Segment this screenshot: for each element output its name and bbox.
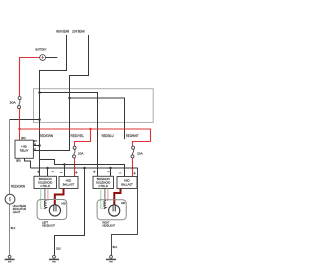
ground right headlight: [106, 255, 116, 262]
svg-text:CTRLR: CTRLR: [98, 184, 108, 188]
svg-text:RED/YEL: RED/YEL: [71, 134, 85, 138]
wire ground bus with right headlight ground: [31, 167, 138, 169]
bulb left HID: [49, 201, 66, 216]
svg-text:RED/BLU: RED/BLU: [102, 134, 115, 138]
wire low branch stub RED/WHT: [70, 98, 125, 139]
svg-text:BALLAST: BALLAST: [63, 183, 75, 187]
svg-text:LIGHT: LIGHT: [13, 210, 21, 214]
wire left fuse drop: [75, 129, 91, 146]
junction red bus left drop: [89, 128, 91, 130]
thick red ballast output right: [114, 189, 120, 206]
ballast right HID BALLAST: [117, 172, 137, 189]
headlight right housing: [97, 200, 126, 220]
solenoid coil left: [44, 201, 46, 209]
wire high-beam feed: [40, 35, 67, 176]
solenoid wires right black: [104, 189, 106, 202]
svg-text:HID: HID: [121, 201, 125, 205]
svg-text:RELAY: RELAY: [20, 149, 29, 153]
relay U1 HID RELAY: [15, 136, 33, 163]
wire battery negative stub: [46, 57, 58, 59]
junction solenoid minus left: [46, 167, 49, 170]
wire battery red feed: [20, 58, 40, 97]
wire fuse to relay pin 30: [19, 108, 21, 140]
svg-text:BLK: BLK: [11, 226, 16, 230]
solenoid wires left black: [44, 189, 46, 202]
headlight left housing: [37, 200, 67, 220]
junction high/relay86: [38, 144, 41, 147]
thick red ballast output left: [55, 189, 64, 206]
svg-text:HEADLIGHT: HEADLIGHT: [42, 224, 55, 228]
gray boundary box: [34, 89, 154, 123]
svg-text:LOW BEAM: LOW BEAM: [72, 29, 85, 33]
wire relay 85 to ground bus: [25, 158, 31, 168]
lamp high beam indicator: [5, 194, 27, 214]
junction solenoid minus right: [109, 167, 112, 170]
wire left fuse to ballast: [74, 158, 76, 177]
fuse 30A: [10, 97, 22, 109]
wire right headlight ground drop: [112, 168, 138, 256]
svg-text:HEADLIGHT: HEADLIGHT: [102, 224, 115, 228]
svg-text:30A: 30A: [10, 100, 16, 104]
wire right fuse to ballast: [132, 158, 134, 177]
ground left headlight: [49, 255, 59, 262]
bulb right HID: [109, 201, 126, 216]
wire ballast signal line: [40, 160, 125, 177]
wire left ballast signal drop: [64, 165, 66, 177]
ground indicator: [5, 255, 15, 262]
solenoid wires right green: [101, 189, 103, 209]
wire left headlight ground: [55, 168, 85, 256]
junction high/branch: [38, 91, 41, 94]
svg-text:BLK: BLK: [113, 245, 118, 249]
solenoid controller right: [93, 171, 114, 189]
fuse 20A right: [131, 146, 143, 158]
svg-text:(85): (85): [16, 159, 21, 163]
svg-text:RED/GRN: RED/GRN: [11, 184, 26, 188]
wire right solenoid minus drop: [110, 168, 112, 176]
wire indicator to ground: [9, 204, 11, 256]
wire high branch to right solenoid ctrlr: [40, 93, 98, 177]
svg-text:(30): (30): [21, 136, 26, 140]
svg-text:HIGH BEAM: HIGH BEAM: [56, 29, 69, 33]
svg-text:BLK: BLK: [56, 246, 61, 250]
solenoid coil right: [104, 201, 106, 209]
svg-text:CTRLR: CTRLR: [40, 184, 50, 188]
junction left ground: [83, 167, 86, 170]
junction high/indicator: [38, 118, 41, 121]
solenoid controller left: [34, 171, 57, 189]
wire indicator drop: [9, 120, 11, 195]
svg-text:BALLAST: BALLAST: [121, 183, 133, 187]
solenoid wires right red: [107, 189, 109, 202]
solenoid wires left green: [41, 189, 44, 209]
pin 87a stub: [33, 141, 35, 143]
junction ballast signal: [63, 163, 66, 166]
svg-text:20A: 20A: [137, 152, 143, 156]
svg-text:RED/GRN: RED/GRN: [39, 134, 54, 138]
wire indicator branch horizontal: [10, 119, 40, 121]
junction low/branch: [68, 97, 71, 100]
wire low-beam feed: [32, 35, 89, 151]
junction red bus at relay: [18, 128, 20, 130]
svg-text:20A: 20A: [78, 152, 84, 156]
wire left solenoid minus drop: [47, 168, 49, 176]
pin 86 wire: [33, 145, 39, 147]
svg-text:RED/WHT: RED/WHT: [126, 134, 139, 138]
svg-text:BATTERY: BATTERY: [36, 48, 47, 52]
wire red bus: [20, 129, 151, 146]
ballast left HID BALLAST: [59, 171, 78, 188]
fuse 20A left: [73, 146, 84, 158]
battery B1: [36, 48, 47, 61]
solenoid wires left red: [47, 189, 49, 202]
svg-text:HID: HID: [62, 201, 66, 205]
